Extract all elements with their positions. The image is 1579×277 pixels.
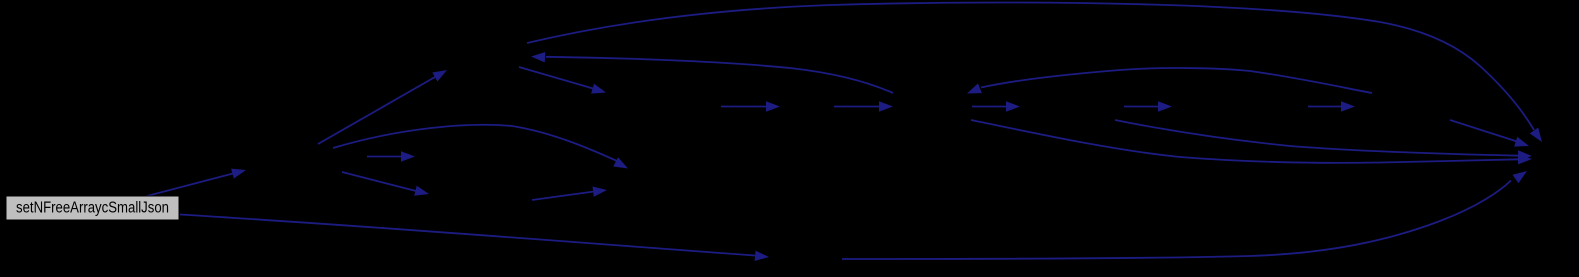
- edge node1->btm: [180, 215, 769, 262]
- edge nc->rgt: [971, 120, 1532, 164]
- edge nd->rgt: [1115, 120, 1532, 161]
- edge node2->top: [318, 70, 447, 144]
- edge nd->ne: [1124, 101, 1172, 111]
- edge node2->sm2: [342, 172, 429, 196]
- edge nf->rgt: [1450, 120, 1529, 147]
- svg-text:setNFreeArraycSmallJson: setNFreeArraycSmallJson: [16, 200, 169, 217]
- edge nb->nc: [834, 101, 893, 111]
- edge node1->node2: [145, 169, 246, 197]
- edge sm2->low1: [532, 187, 607, 201]
- edge na->nb: [721, 101, 780, 111]
- edge ne->nf: [1308, 101, 1355, 111]
- edge node2->sm1: [367, 151, 415, 161]
- node setNFreeArraycSmallJson: [6, 196, 179, 220]
- edge btm->rgt: [842, 171, 1527, 259]
- edge top->na: [519, 67, 606, 94]
- edge nc->nd: [972, 101, 1020, 111]
- edge node2->low1: [333, 125, 628, 169]
- edge top->rgt: [527, 3, 1542, 143]
- edge nc->top: [531, 52, 893, 93]
- edge nf->nc: [967, 68, 1372, 93]
